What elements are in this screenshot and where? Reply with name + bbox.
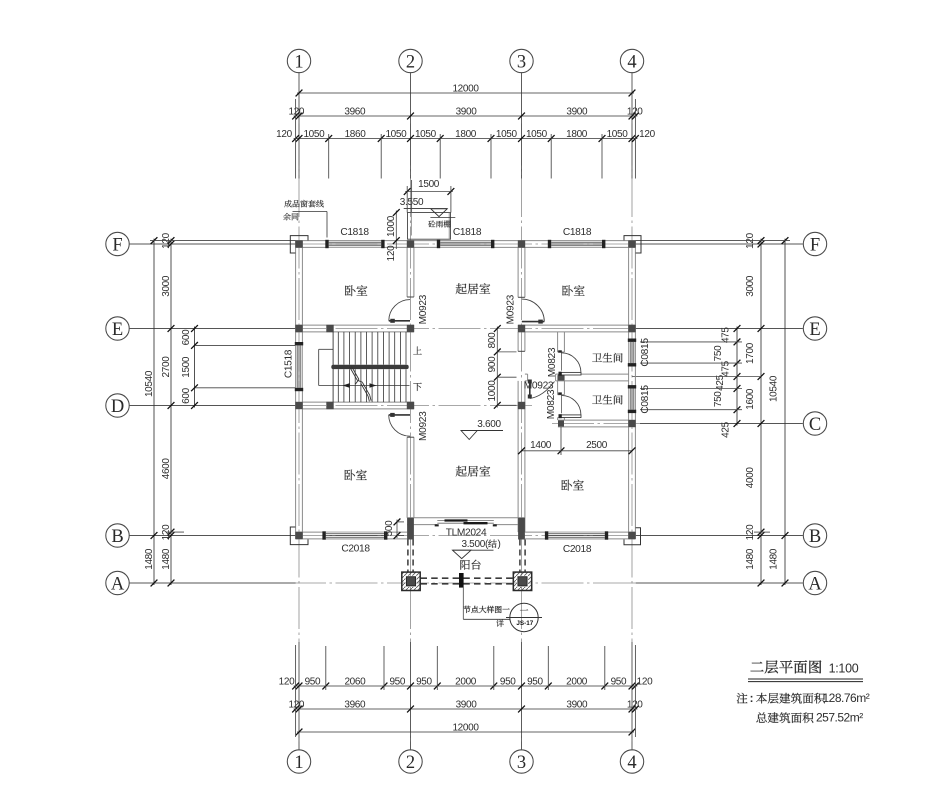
dimension chain left outer 10540/1480 bbox=[153, 239, 155, 585]
balcony pier east bbox=[513, 572, 531, 590]
stair handrail bbox=[331, 365, 408, 369]
room label bedroom SW bbox=[344, 470, 366, 481]
svg-text:C1818: C1818 bbox=[563, 227, 592, 238]
svg-text:4600: 4600 bbox=[161, 458, 172, 480]
svg-text:425: 425 bbox=[720, 421, 731, 437]
wall interior axis 3 lower bbox=[517, 381, 519, 532]
svg-text:1050: 1050 bbox=[385, 129, 407, 140]
svg-text:120: 120 bbox=[639, 129, 655, 140]
svg-text:1050: 1050 bbox=[303, 129, 325, 140]
interior chain 800/900/1000 at axis3 bbox=[496, 327, 498, 408]
svg-text:1050: 1050 bbox=[496, 129, 518, 140]
column axis3 balcony jamb bbox=[518, 518, 525, 540]
window C2018 south bay 1-2 bbox=[326, 531, 384, 533]
grid line axis 4 bbox=[631, 72, 633, 751]
grid line axis 3 bbox=[521, 72, 523, 751]
corner trim north-west bbox=[290, 236, 308, 253]
window C0815 east upper bbox=[628, 342, 630, 363]
svg-text:950: 950 bbox=[500, 676, 516, 687]
wall bathroom south (axis C) bbox=[558, 419, 629, 421]
grid bubble B right bbox=[803, 524, 826, 547]
stair break line bbox=[350, 367, 358, 380]
room label bedroom NE bbox=[562, 285, 584, 296]
svg-text:950: 950 bbox=[305, 676, 321, 687]
grid line axis A bbox=[130, 582, 804, 584]
detail note joint detail bbox=[463, 606, 509, 613]
svg-text:3960: 3960 bbox=[344, 106, 366, 117]
grid bubble A left bbox=[106, 571, 129, 594]
svg-text:2000: 2000 bbox=[566, 676, 588, 687]
room label living south bbox=[456, 466, 491, 477]
column axis2 balcony jamb bbox=[407, 518, 414, 540]
grid bubble E right bbox=[803, 317, 826, 340]
note area line 1 bbox=[737, 693, 748, 704]
canopy level triangle bbox=[431, 209, 447, 217]
grid witness segments (solid over dash-dot near dims) bbox=[298, 73, 300, 179]
svg-text:2: 2 bbox=[406, 753, 415, 773]
svg-text:TLM2024: TLM2024 bbox=[446, 527, 487, 538]
room label bathroom lower bbox=[592, 395, 622, 405]
svg-text:2000: 2000 bbox=[455, 676, 477, 687]
canopy width dim 1500 bbox=[405, 191, 453, 193]
svg-text:M0823: M0823 bbox=[547, 347, 558, 377]
dimension chain top openings bbox=[294, 138, 638, 140]
dimension chain left main 120/3000/2700/4600/120/1480 bbox=[170, 239, 172, 585]
svg-text:M0923: M0923 bbox=[418, 411, 429, 441]
svg-text:): ) bbox=[498, 539, 501, 550]
balcony label bbox=[460, 560, 480, 570]
svg-text:A: A bbox=[111, 575, 125, 595]
svg-text:120: 120 bbox=[637, 676, 653, 687]
grid line axis E bbox=[130, 328, 804, 330]
svg-text:1600: 1600 bbox=[745, 388, 756, 410]
svg-text:1050: 1050 bbox=[526, 129, 548, 140]
svg-text:120: 120 bbox=[276, 129, 292, 140]
svg-text:128.76m²: 128.76m² bbox=[823, 691, 870, 705]
canopy concrete rain hood bbox=[408, 213, 451, 240]
door M0923 hall (divider wall) bbox=[529, 381, 531, 399]
svg-text:E: E bbox=[112, 320, 123, 340]
wall interior axis 3 upper bbox=[517, 247, 519, 297]
wall exterior west (axis 1) bbox=[295, 241, 297, 539]
svg-text:1480: 1480 bbox=[144, 548, 155, 570]
dimension chain top overall 12000 bbox=[297, 92, 634, 94]
room label living north bbox=[456, 283, 491, 294]
stair well edge line bbox=[332, 332, 334, 402]
dimension chain right main 120/3000/1700/1600/4000/120/1480 bbox=[760, 239, 762, 585]
grid line axis 2 bbox=[410, 72, 412, 751]
svg-text:C2018: C2018 bbox=[563, 544, 592, 555]
svg-text:12000: 12000 bbox=[452, 722, 479, 733]
svg-text:1700: 1700 bbox=[745, 342, 756, 364]
svg-text:1800: 1800 bbox=[455, 129, 477, 140]
svg-text:3: 3 bbox=[517, 753, 526, 773]
grid line axis 1 bbox=[298, 72, 300, 751]
svg-text:M0923: M0923 bbox=[505, 294, 516, 324]
wall exterior south west part (axis B) bbox=[296, 538, 408, 540]
grid bubble 1 bottom bbox=[287, 750, 310, 773]
balcony pier west bbox=[402, 572, 420, 590]
svg-text:10540: 10540 bbox=[144, 370, 155, 397]
svg-text:4: 4 bbox=[627, 753, 636, 773]
svg-text:3900: 3900 bbox=[456, 106, 478, 117]
svg-text:1480: 1480 bbox=[768, 548, 779, 570]
svg-text:2: 2 bbox=[406, 53, 415, 73]
stair walk line with arrows bbox=[319, 385, 410, 387]
svg-text:M0923: M0923 bbox=[418, 294, 429, 324]
interior dim 500 at axis2 south bbox=[396, 520, 398, 539]
wall interior axis 3 middle stub bbox=[517, 332, 519, 351]
svg-text:2700: 2700 bbox=[161, 356, 172, 378]
grid line axis B bbox=[130, 535, 804, 537]
window C1818 north bay 1-2 bbox=[329, 240, 382, 242]
svg-text:F: F bbox=[112, 236, 122, 256]
window C0815 east lower bbox=[628, 389, 630, 410]
svg-text:4: 4 bbox=[627, 53, 636, 73]
grid bubble 3 bottom bbox=[510, 750, 533, 773]
svg-text:3000: 3000 bbox=[745, 275, 756, 297]
svg-text:3900: 3900 bbox=[456, 699, 478, 710]
grid bubble 1 top bbox=[287, 49, 310, 72]
svg-text:4000: 4000 bbox=[745, 467, 756, 489]
balcony section cut mark bbox=[459, 573, 464, 588]
grid bubble 3 top bbox=[510, 49, 533, 72]
door M0923 bedroom SW (axis2 wall) bbox=[389, 414, 410, 416]
door M0823 bathroom lower bbox=[560, 395, 562, 413]
window C2018 south bay 3-4 bbox=[548, 531, 605, 533]
window C1518 west stair bbox=[295, 345, 297, 387]
wall living south with balcony door (y=521.2) bbox=[407, 517, 525, 519]
grid bubble A right bbox=[803, 571, 826, 594]
door M0823 bathroom upper bbox=[560, 353, 562, 371]
svg-text:C2018: C2018 bbox=[341, 543, 370, 554]
svg-text:3.500(: 3.500( bbox=[461, 539, 489, 550]
window C1818 north bay 3-4 bbox=[551, 240, 602, 242]
svg-text:C1818: C1818 bbox=[340, 227, 369, 238]
svg-text:950: 950 bbox=[611, 676, 627, 687]
structural columns bbox=[295, 240, 302, 247]
svg-text:M0823: M0823 bbox=[546, 389, 557, 419]
svg-text:1500: 1500 bbox=[418, 179, 440, 190]
witness lines right bbox=[635, 240, 790, 242]
wall interior axis 2 upper (bedroom/living) bbox=[406, 247, 408, 297]
svg-text:3900: 3900 bbox=[566, 106, 588, 117]
grid line axis C bbox=[552, 423, 803, 425]
svg-text:120: 120 bbox=[288, 106, 304, 117]
title second floor plan bbox=[751, 660, 822, 673]
dimension chain right windows 475/750/475/425/750/425 bbox=[736, 327, 738, 426]
grid bubble 4 bottom bbox=[620, 750, 643, 773]
door M0923 bedroom NE (axis3 wall) bbox=[522, 321, 545, 323]
svg-text:1860: 1860 bbox=[345, 129, 367, 140]
svg-text:1800: 1800 bbox=[566, 129, 588, 140]
wall bathroom divider (y=377.5) bbox=[525, 373, 528, 375]
wall interior axis 2 lower bbox=[406, 437, 408, 518]
svg-text:950: 950 bbox=[389, 676, 405, 687]
corner trim north-east bbox=[624, 236, 641, 253]
svg-text:600: 600 bbox=[181, 387, 192, 403]
stair landing boundary bbox=[319, 348, 333, 350]
note finished window casing bbox=[284, 200, 324, 207]
svg-text:1050: 1050 bbox=[607, 129, 629, 140]
svg-text:C1518: C1518 bbox=[283, 349, 294, 378]
svg-text:C0815: C0815 bbox=[640, 385, 651, 414]
svg-text:1000: 1000 bbox=[386, 215, 397, 237]
room label bedroom NW bbox=[345, 285, 367, 296]
detail circle JS-17 bbox=[510, 603, 538, 631]
svg-text:950: 950 bbox=[527, 676, 543, 687]
svg-text:1: 1 bbox=[294, 753, 303, 773]
svg-text:A: A bbox=[808, 575, 822, 595]
svg-text:2060: 2060 bbox=[344, 676, 366, 687]
stair flight risers lower bbox=[337, 369, 339, 402]
wall exterior north (axis F) bbox=[296, 240, 636, 242]
grid bubble 2 top bbox=[399, 49, 422, 72]
svg-text:12000: 12000 bbox=[452, 83, 479, 94]
witness lines bottom bbox=[325, 646, 327, 690]
svg-text:F: F bbox=[810, 236, 820, 256]
svg-text:900: 900 bbox=[487, 356, 498, 372]
corner trim south-west bbox=[290, 527, 308, 545]
svg-text:500: 500 bbox=[384, 520, 395, 536]
wall bathroom west (x=561) bbox=[557, 332, 559, 352]
svg-text:1000: 1000 bbox=[487, 380, 498, 402]
grid bubble F left bbox=[106, 232, 129, 255]
svg-text:1: 1 bbox=[294, 53, 303, 73]
wall interior axis E bbox=[296, 324, 414, 326]
dimension chain left window 600/1500/600 bbox=[194, 327, 196, 408]
svg-text:B: B bbox=[809, 527, 821, 547]
svg-text:C1818: C1818 bbox=[453, 227, 482, 238]
svg-text:1500: 1500 bbox=[181, 356, 192, 378]
svg-text:JS-17: JS-17 bbox=[516, 620, 533, 627]
wall exterior south east part (axis B) bbox=[525, 538, 636, 540]
dimension chain bottom overall 12000 bbox=[297, 731, 634, 733]
svg-text::: : bbox=[750, 693, 754, 705]
svg-text:E: E bbox=[809, 320, 820, 340]
witness lines left bbox=[150, 240, 296, 242]
canopy depth dim 1000/120 bbox=[395, 211, 397, 250]
wall exterior east (axis 4) bbox=[634, 241, 636, 539]
dimension chain right outer 10540/1480 bbox=[784, 239, 786, 585]
svg-text:3.600: 3.600 bbox=[477, 419, 501, 430]
room label bathroom upper bbox=[592, 353, 622, 363]
svg-text:120: 120 bbox=[279, 676, 295, 687]
svg-text:120: 120 bbox=[288, 699, 304, 710]
svg-text:D: D bbox=[111, 397, 124, 417]
svg-text:1:100: 1:100 bbox=[829, 661, 859, 675]
corner trim south-east bbox=[624, 528, 641, 545]
grid line axis D bbox=[130, 405, 535, 407]
grid bubble D left bbox=[106, 394, 129, 417]
svg-text:750: 750 bbox=[713, 345, 724, 361]
svg-text:1480: 1480 bbox=[161, 548, 172, 570]
svg-text:C0815: C0815 bbox=[640, 338, 651, 367]
svg-text:1400: 1400 bbox=[530, 440, 552, 451]
balcony front rail dashed bbox=[421, 577, 514, 579]
window C1818 north bay 2-3 bbox=[440, 240, 491, 242]
svg-text:950: 950 bbox=[416, 676, 432, 687]
svg-text:800: 800 bbox=[487, 332, 498, 348]
stair flight risers upper bbox=[337, 332, 339, 365]
svg-text:1050: 1050 bbox=[415, 129, 437, 140]
stair label down bbox=[413, 383, 421, 391]
svg-text:600: 600 bbox=[181, 329, 192, 345]
svg-text:B: B bbox=[111, 527, 123, 547]
wall interior axis D (stair south wall) bbox=[302, 401, 414, 403]
svg-text:3900: 3900 bbox=[566, 699, 588, 710]
svg-text:2500: 2500 bbox=[586, 440, 608, 451]
svg-text:750: 750 bbox=[713, 391, 724, 407]
grid bubble C right bbox=[803, 412, 826, 435]
svg-text:3960: 3960 bbox=[344, 699, 366, 710]
svg-text:120: 120 bbox=[386, 245, 397, 261]
door M0923 bedroom NW (axis2 wall) bbox=[389, 320, 410, 322]
interior dim 1400/2500 bedroom SE bbox=[522, 450, 633, 452]
room label bedroom SE bbox=[561, 480, 583, 491]
balcony side rails dashed bbox=[407, 540, 409, 572]
svg-text:3000: 3000 bbox=[161, 275, 172, 297]
grid bubble E left bbox=[106, 317, 129, 340]
svg-text:3: 3 bbox=[517, 53, 526, 73]
svg-text:257.52m²: 257.52m² bbox=[816, 711, 863, 725]
witness lines top bbox=[328, 134, 330, 179]
stair label up bbox=[413, 347, 421, 355]
grid bubble B left bbox=[106, 524, 129, 547]
grid bubble 2 bottom bbox=[399, 750, 422, 773]
door TLM2024 balcony sliding bbox=[437, 520, 494, 522]
grid bubble F right bbox=[803, 232, 826, 255]
svg-text:475: 475 bbox=[721, 327, 732, 343]
note area line 2 bbox=[756, 712, 813, 723]
svg-text:C: C bbox=[809, 415, 821, 435]
svg-text:1480: 1480 bbox=[745, 548, 756, 570]
dimension chain bottom openings bbox=[294, 685, 638, 687]
junction blocks bathroom bbox=[558, 375, 564, 381]
svg-text:10540: 10540 bbox=[768, 375, 779, 402]
grid line axis F bbox=[130, 243, 804, 245]
grid bubble 4 top bbox=[620, 49, 643, 72]
dimension chain top bays 120/3960/3900/3900/120 bbox=[294, 115, 638, 117]
dimension chain bottom bays bbox=[294, 708, 638, 710]
